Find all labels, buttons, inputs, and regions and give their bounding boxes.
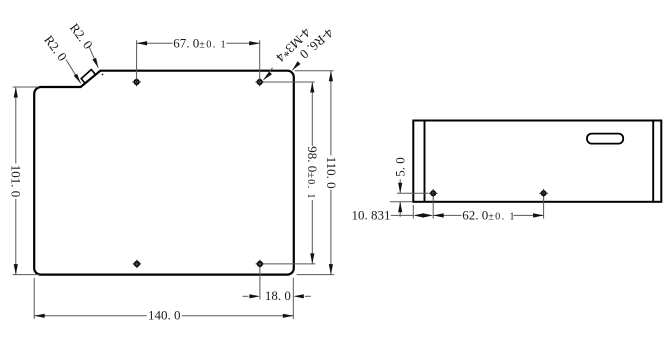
svg-text:101. 0: 101. 0 bbox=[9, 165, 24, 198]
svg-text:140. 0: 140. 0 bbox=[148, 307, 181, 322]
svg-text:110. 0: 110. 0 bbox=[324, 157, 339, 189]
svg-text:5. 0: 5. 0 bbox=[393, 157, 408, 177]
svg-text:18. 0: 18. 0 bbox=[265, 288, 291, 303]
svg-text:10. 831: 10. 831 bbox=[352, 207, 391, 222]
